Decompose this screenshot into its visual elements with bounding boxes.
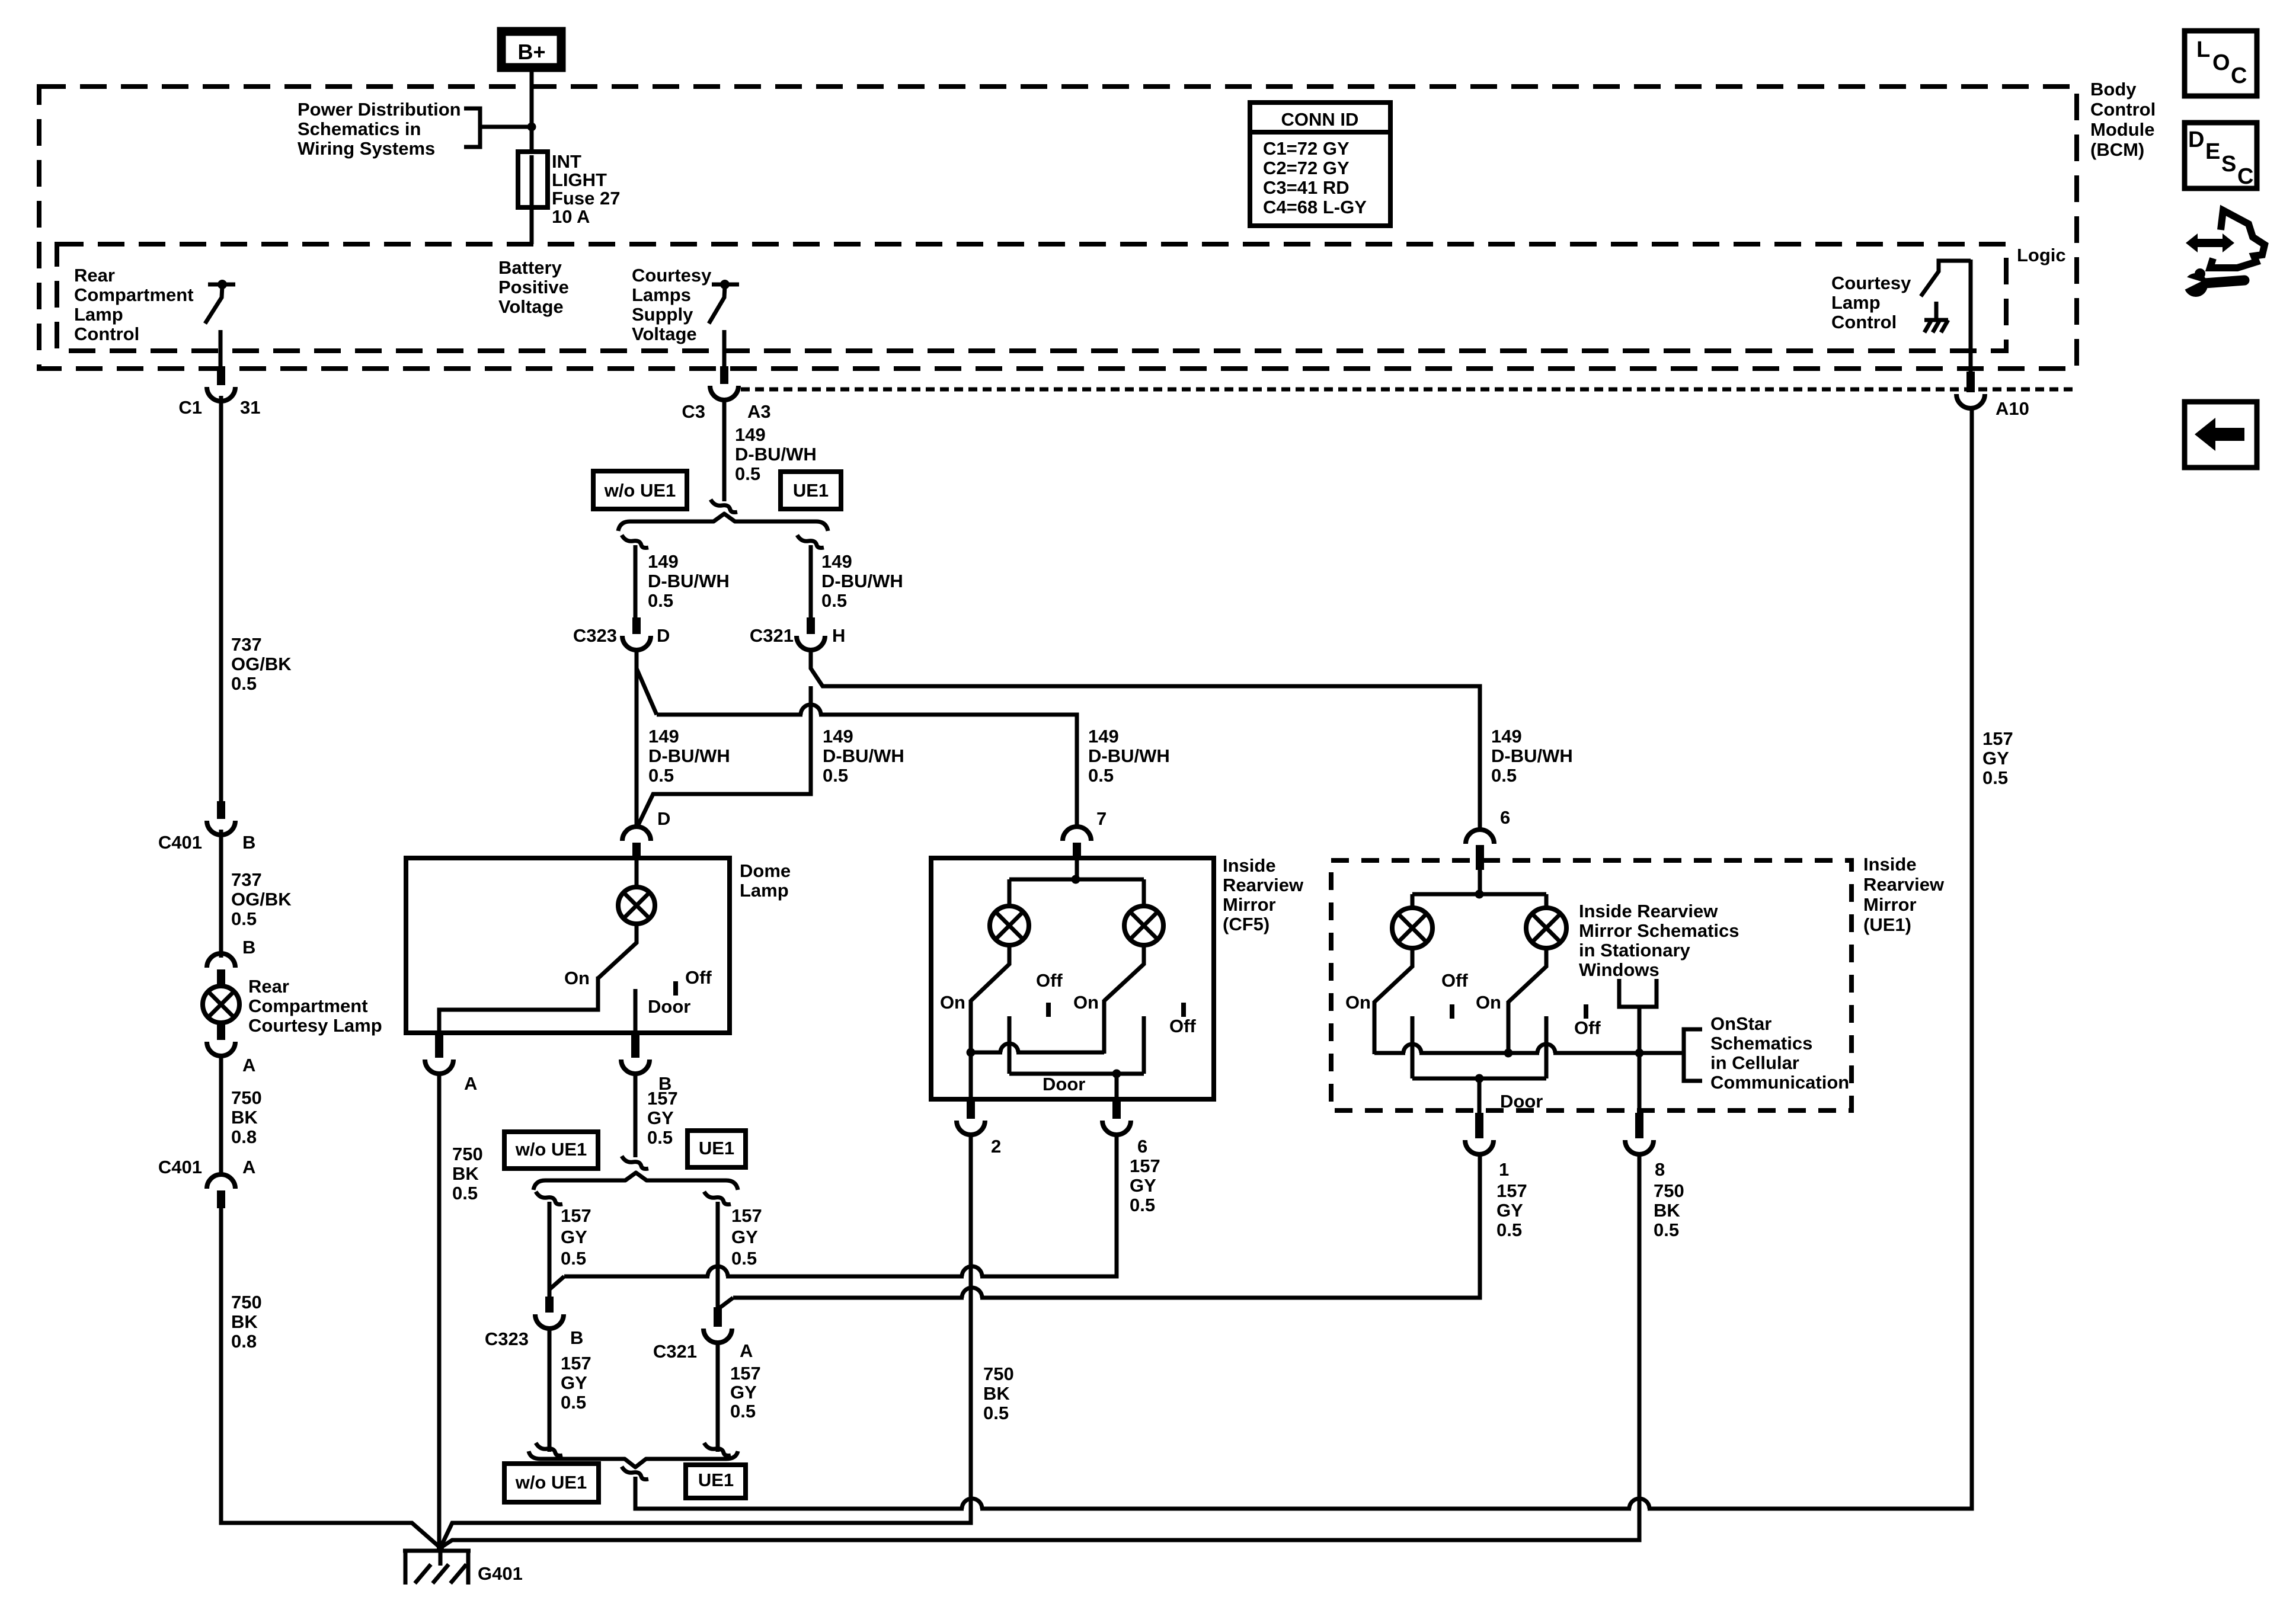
svg-text:BK: BK [231,1107,258,1128]
CF5 exit pin 2 [969,1052,973,1099]
svg-text:0.8: 0.8 [231,1331,257,1352]
svg-text:8: 8 [1655,1159,1665,1180]
svg-text:Positive: Positive [498,277,569,297]
connector CF5 pin 7 [1063,827,1091,841]
svg-text:0.5: 0.5 [983,1403,1009,1423]
svg-text:31: 31 [240,397,260,418]
svg-text:Control: Control [2090,99,2156,120]
svg-text:Door: Door [1043,1074,1085,1094]
LOC icon box [2185,31,2257,96]
back arrow icon box [2185,402,2257,468]
CF5 lamp 1 [1008,879,1012,907]
svg-text:BK: BK [1654,1200,1680,1221]
svg-text:(BCM): (BCM) [2090,139,2144,160]
svg-text:Supply: Supply [632,304,693,325]
svg-text:w/o UE1: w/o UE1 [515,1139,587,1160]
wire 750 BK 0.8 to ground [219,1208,223,1523]
connector dome lamp pin D [622,827,651,841]
svg-text:GY: GY [647,1108,674,1128]
wire 750 BK 0.5 dome to ground [437,1074,442,1548]
svg-text:Lamp: Lamp [740,880,789,901]
dotted connector-face line [741,388,2076,392]
CONN ID table [1250,103,1390,226]
wire 737 OG/BK from C1 to C401 [219,396,223,801]
dome lamp bulb [618,887,655,924]
UE1 exit pin 8 [1638,1053,1642,1113]
svg-text:Lamps: Lamps [632,284,691,305]
svg-text:Off: Off [1036,970,1063,991]
branch wire UE1 157 [716,1202,720,1308]
svg-text:0.5: 0.5 [231,908,257,929]
svg-text:C3=41 RD: C3=41 RD [1263,177,1350,198]
connector C321 pin H [807,617,815,634]
svg-text:Schematics: Schematics [1710,1033,1812,1054]
svg-text:149: 149 [823,726,853,747]
svg-text:10 A: 10 A [552,206,590,227]
CF5 right switch [1104,945,1144,1001]
svg-text:GY: GY [731,1227,758,1247]
connector C323 pin D [632,617,641,634]
svg-text:Power Distribution: Power Distribution [298,99,461,120]
svg-text:157: 157 [647,1088,678,1109]
svg-text:149: 149 [648,551,679,572]
svg-text:C: C [2237,164,2253,189]
hop over C321 wire [802,712,819,718]
UE1 right switch [1508,948,1546,1002]
DESC icon box [2185,123,2257,188]
option boxes w/o UE1 and UE1 (mid) [504,1132,598,1169]
svg-text:INT: INT [552,151,581,172]
svg-text:UE1: UE1 [699,1138,734,1158]
svg-text:0.5: 0.5 [730,1401,756,1422]
svg-text:Mirror: Mirror [1863,894,1917,915]
svg-text:Door: Door [648,996,690,1017]
svg-text:0.5: 0.5 [1130,1195,1155,1215]
UE1 left switch [1374,948,1412,1002]
svg-text:0.5: 0.5 [452,1183,478,1204]
UE1 switch common line to OnStar [1374,1051,1684,1055]
svg-text:OG/BK: OG/BK [231,889,292,910]
branch hooks [622,535,648,548]
svg-text:A: A [464,1073,477,1094]
svg-text:O: O [2212,50,2230,75]
svg-text:Voltage: Voltage [498,296,564,317]
svg-text:Windows: Windows [1579,959,1659,980]
svg-text:0.5: 0.5 [1982,767,2008,788]
hop over UE1 branch [709,1273,726,1279]
wire 157 return from UE1 pin1 [733,1154,1480,1298]
svg-text:0.5: 0.5 [1654,1219,1679,1240]
svg-text:149: 149 [648,726,679,747]
svg-text:6: 6 [1500,807,1510,828]
svg-text:C: C [2231,63,2247,88]
split hook [711,500,737,513]
svg-text:On: On [940,992,965,1013]
svg-text:Rear: Rear [74,265,115,286]
svg-text:Voltage: Voltage [632,324,697,344]
svg-text:157: 157 [730,1363,761,1384]
svg-text:Courtesy Lamp: Courtesy Lamp [248,1015,382,1036]
svg-text:Control: Control [1831,312,1897,332]
svg-text:750: 750 [231,1292,262,1313]
svg-text:0.5: 0.5 [1088,765,1114,786]
svg-text:149: 149 [821,551,852,572]
svg-text:Schematics in: Schematics in [298,119,421,139]
svg-text:Compartment: Compartment [248,996,368,1016]
svg-text:0.8: 0.8 [231,1126,257,1147]
svg-text:GY: GY [730,1382,757,1403]
svg-text:0.5: 0.5 [823,765,848,786]
svg-text:Control: Control [74,324,139,344]
svg-text:C401: C401 [158,1157,202,1177]
BCM outer dashed box [39,87,2077,369]
connector C1 pin 31 [217,367,225,385]
svg-text:Inside Rearview: Inside Rearview [1579,901,1718,921]
svg-text:CONN ID: CONN ID [1281,109,1359,130]
inside rearview mirror CF5 box [931,858,1214,1099]
connector dome pin B [631,1035,639,1058]
svg-text:Inside: Inside [1863,854,1917,875]
svg-text:in Stationary: in Stationary [1579,940,1691,961]
svg-text:UE1: UE1 [793,480,829,501]
svg-text:D-BU/WH: D-BU/WH [821,571,903,591]
svg-text:Fuse 27: Fuse 27 [552,188,620,209]
svg-text:D-BU/WH: D-BU/WH [823,745,904,766]
wire C321 branch down to dome lamp [638,686,811,826]
hop over CF5 pin2 wire [964,1295,980,1301]
dome lamp box [406,858,730,1033]
svg-text:7: 7 [1096,808,1107,829]
svg-text:Off: Off [1574,1017,1601,1038]
svg-text:Battery: Battery [498,257,562,278]
rear compartment courtesy lamp connector B [207,953,235,968]
svg-text:C321: C321 [750,625,794,646]
switch Courtesy Lamps Supply Voltage [712,283,739,287]
svg-text:GY: GY [561,1372,587,1393]
CF5 exit pin 6 [1115,1074,1119,1099]
branch diagonal to CF5 feed line [637,668,657,715]
svg-text:B+: B+ [517,40,545,64]
svg-text:w/o UE1: w/o UE1 [604,480,676,501]
connector C323 pin B [545,1297,554,1313]
svg-text:BK: BK [983,1383,1010,1404]
wire to rear lamp [219,830,223,958]
branch wire w/o UE1 149 [634,545,638,617]
wire to A10 [1969,260,1973,372]
svg-text:Courtesy: Courtesy [1831,273,1911,293]
svg-text:Rear: Rear [248,976,289,997]
svg-text:in Cellular: in Cellular [1710,1052,1799,1073]
svg-text:157: 157 [1496,1180,1527,1201]
svg-text:D: D [657,625,670,646]
svg-text:Compartment: Compartment [74,284,194,305]
svg-text:149: 149 [1491,726,1522,747]
svg-text:Module: Module [2090,119,2155,140]
svg-text:6: 6 [1137,1136,1147,1157]
svg-text:C401: C401 [158,832,202,853]
svg-text:L: L [2196,37,2210,62]
svg-text:OG/BK: OG/BK [231,654,292,674]
svg-text:BK: BK [452,1163,479,1184]
svg-text:737: 737 [231,869,262,890]
svg-text:On: On [1345,992,1371,1013]
svg-text:0.5: 0.5 [1496,1219,1522,1240]
wire 149 D-BU/WH from C3 [722,398,727,501]
svg-text:157: 157 [1130,1156,1160,1176]
svg-text:On: On [564,968,590,988]
svg-text:750: 750 [983,1363,1014,1384]
merge hook [622,1156,648,1169]
svg-text:0.5: 0.5 [821,590,847,611]
svg-text:(UE1): (UE1) [1863,914,1911,935]
split brace for UE1 options [618,514,828,531]
svg-text:157: 157 [561,1353,591,1374]
svg-text:A: A [740,1340,753,1361]
svg-text:750: 750 [231,1087,262,1108]
svg-text:C4=68 L-GY: C4=68 L-GY [1263,197,1367,217]
svg-text:D-BU/WH: D-BU/WH [648,571,730,591]
svg-text:Inside: Inside [1223,855,1276,876]
callout bracket to B+ wire [464,108,480,147]
svg-text:S: S [2221,152,2236,177]
svg-text:C3: C3 [682,401,705,422]
wire 750 BK CF5 pin2 to ground [440,1135,971,1548]
svg-text:C321: C321 [653,1341,697,1362]
svg-text:C2=72 GY: C2=72 GY [1263,158,1350,178]
svg-text:LIGHT: LIGHT [552,169,607,190]
svg-text:0.5: 0.5 [731,1248,757,1269]
svg-text:Off: Off [1169,1016,1196,1036]
wire 750 BK 0.8 [219,1055,223,1176]
svg-text:E: E [2205,139,2220,164]
connector dome pin A [435,1035,443,1058]
dome switch On wire to A [439,977,598,1033]
wire B+ to fuse [530,72,534,153]
svg-text:0.5: 0.5 [561,1392,586,1413]
option boxes w/o UE1 and UE1 (lower) [504,1464,599,1502]
svg-text:149: 149 [1088,726,1119,747]
svg-text:D: D [2188,127,2204,152]
wire 157 return to CF5 pin 6 [564,1133,1117,1276]
svg-text:750: 750 [452,1144,483,1164]
windows schematic bracket [1619,979,1657,1007]
svg-text:Off: Off [1441,970,1468,991]
svg-text:Rearview: Rearview [1863,874,1945,895]
svg-text:Mirror Schematics: Mirror Schematics [1579,920,1739,941]
wire C323-D down to dome lamp D [635,649,639,828]
svg-text:750: 750 [1654,1180,1684,1201]
branch diagonal to CF5 return line [549,1276,564,1289]
branch hooks [536,1192,562,1205]
branch wire UE1 149 [809,545,813,617]
svg-text:0.5: 0.5 [648,590,673,611]
connector C321 pin A [714,1307,722,1327]
CF5 left switch [971,945,1009,1001]
svg-text:Door: Door [1500,1091,1543,1112]
branch wire w/o UE1 157 [548,1202,552,1297]
wire 157 GY from dome B [634,1074,638,1157]
svg-text:B: B [242,832,255,853]
svg-text:A3: A3 [747,401,771,422]
power feed B+ [501,31,561,68]
svg-text:Dome: Dome [740,860,791,881]
svg-text:A: A [242,1055,255,1076]
svg-text:C323: C323 [485,1329,529,1349]
svg-text:0.5: 0.5 [647,1127,673,1148]
svg-text:Rearview: Rearview [1223,875,1304,895]
svg-text:OnStar: OnStar [1710,1013,1771,1034]
hop over CF5 ground wire [964,1506,980,1512]
wire 157 merge to A10 [635,406,1972,1509]
wire from CF5 pin6 down [1115,1135,1119,1276]
wire left ground run [221,1521,440,1548]
connector C3 pin A3 [720,366,728,384]
svg-text:C1=72 GY: C1=72 GY [1263,138,1350,159]
svg-text:157: 157 [731,1205,762,1226]
svg-text:H: H [832,625,845,646]
svg-text:GY: GY [1130,1175,1156,1196]
svg-text:Mirror: Mirror [1223,894,1276,915]
rear compartment courtesy lamp [203,986,239,1023]
svg-text:0.5: 0.5 [561,1248,586,1269]
svg-text:A10: A10 [1996,398,2029,419]
svg-text:157: 157 [561,1205,591,1226]
svg-text:BK: BK [231,1311,258,1332]
inside rearview mirror UE1 dashed box [1331,860,1851,1110]
CF5 feed junction [1075,858,1079,879]
switch Courtesy Lamp Control with logic ground [1921,261,1971,296]
UE1 feed junction [1478,870,1482,894]
option boxes w/o UE1 and UE1 (upper) [593,471,687,509]
svg-text:B: B [242,937,255,958]
svg-text:737: 737 [231,634,262,655]
svg-text:D-BU/WH: D-BU/WH [735,444,817,465]
wire 157 below C323 [548,1329,552,1452]
svg-text:GY: GY [1982,748,2009,769]
dome lamp wire in [635,858,639,887]
connector UE1 mirror pin 6 [1466,830,1494,844]
svg-text:2: 2 [991,1136,1001,1157]
wire 149 feed to CF5 pin 7 [657,715,1077,828]
svg-text:D-BU/WH: D-BU/WH [1491,745,1573,766]
svg-text:Communication: Communication [1710,1072,1849,1093]
fuse F27 INT LIGHT [530,153,534,209]
schematic jump icon arrows wrench [2186,233,2234,252]
hop over CF5 pin2 wire [964,1273,980,1279]
merge brace to BCM A10 [529,1451,738,1467]
OnStar schematic bracket [1684,1029,1702,1081]
CF5 door contacts and line [1008,1016,1012,1074]
dome lamp switch [598,924,637,978]
hop over UE1 ground wire [1631,1506,1648,1512]
CF5 switch common line [971,1051,1104,1055]
svg-text:0.5: 0.5 [231,673,257,694]
wire fuse to logic box [530,207,534,244]
svg-text:On: On [1073,992,1099,1013]
svg-text:D: D [657,808,670,829]
svg-text:(CF5): (CF5) [1223,914,1269,934]
BCM Logic dashed box [57,244,2006,351]
rear lamp connector A [217,1023,225,1040]
svg-text:D-BU/WH: D-BU/WH [1088,745,1170,766]
svg-text:GY: GY [561,1227,587,1247]
wire C321-H jog to UE1 feed line [811,649,1480,832]
svg-text:0.5: 0.5 [1491,765,1517,786]
UE1 lamp 2 [1544,894,1549,908]
svg-text:D-BU/WH: D-BU/WH [648,745,730,766]
switch Rear Compartment Lamp Control [208,283,235,287]
logic ground symbol [1934,302,1939,319]
CF5 lamp 2 [1142,879,1146,907]
svg-text:0.5: 0.5 [648,765,674,786]
svg-text:Off: Off [685,967,712,988]
connector C401 pin B [217,801,225,819]
svg-text:1: 1 [1499,1159,1509,1180]
svg-text:G401: G401 [478,1563,523,1584]
svg-text:On: On [1476,992,1501,1013]
svg-text:C1: C1 [178,397,202,418]
svg-text:A: A [242,1157,255,1177]
split brace dome B [533,1173,738,1190]
UE1 lamp 1 [1411,894,1415,908]
dome Door wire [634,989,638,1035]
UE1 door contacts and line [1411,1016,1415,1078]
svg-text:Body: Body [2090,79,2137,100]
junction dot on B+ wire [527,123,536,132]
svg-text:Lamp: Lamp [1831,292,1881,313]
svg-text:Wiring Systems: Wiring Systems [298,138,435,159]
svg-text:149: 149 [735,424,766,445]
ground symbol G401 [439,1548,443,1566]
ground junction node [437,1544,444,1551]
svg-text:Courtesy: Courtesy [632,265,712,286]
svg-text:w/o UE1: w/o UE1 [515,1472,587,1493]
svg-text:Lamp: Lamp [74,304,123,325]
svg-text:UE1: UE1 [698,1470,734,1490]
svg-text:C323: C323 [573,625,617,646]
connector A10 [1966,372,1975,392]
svg-text:157: 157 [1982,728,2013,749]
svg-text:0.5: 0.5 [735,463,760,484]
svg-text:B: B [570,1327,583,1348]
UE1 exit pin 1 Door [1478,1078,1482,1113]
svg-text:Logic: Logic [2017,245,2066,265]
wire 157 below C321 [716,1342,720,1452]
svg-text:GY: GY [1496,1200,1523,1221]
wire 750 BK UE1 pin8 to ground [440,1154,1639,1548]
